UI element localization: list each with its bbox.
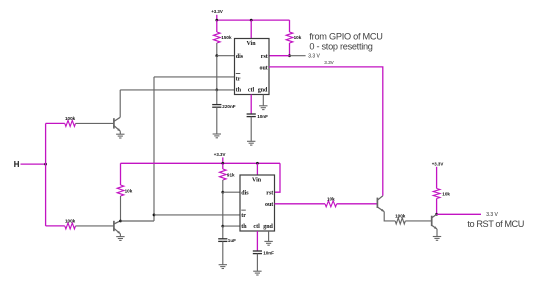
resistor R9 10k (collector Q4) [433,189,440,199]
svg-text:Vin: Vin [246,41,256,47]
ground Q2 emitter [116,237,124,241]
svg-text:out: out [259,65,267,71]
svg-text:+3.3V: +3.3V [211,9,223,14]
svg-text:th: th [236,87,242,93]
wire H lead [21,163,46,165]
node dis2 junction [221,191,224,194]
svg-text:3.3V: 3.3V [324,60,334,65]
svg-text:Vin: Vin [252,178,262,184]
svg-text:from GPIO of MCU: from GPIO of MCU [309,31,383,41]
resistor R8 100k [395,218,405,224]
wire top branch [46,122,65,124]
resistor R4 100k (bottom) [65,223,76,229]
node rail-Vin junction [250,19,253,22]
wire mid 3.3V rail [121,162,281,164]
wire dis2-th2 vertical [222,192,224,226]
ground below C2 [247,141,255,145]
transistor Q4 (right NPN) [432,214,437,229]
transistor Q3 (mid-right NPN) [377,196,384,212]
wire tr pin line U2 [154,214,240,216]
ground Q1 emitter [116,134,124,138]
svg-text:gnd: gnd [258,87,268,93]
wire out U2 [275,203,326,205]
transistor Q1 (top NPN) [114,117,120,131]
svg-text:0 - stop resetting: 0 - stop resetting [309,41,373,51]
node dis junction [215,54,218,57]
svg-text:3.3 V: 3.3 V [308,53,320,59]
svg-text:dis: dis [236,54,244,60]
ground below C3 [219,265,227,269]
op-amp U2 555 timer box [240,175,275,231]
resistor R2 10k (reset pull-up) [289,20,291,32]
svg-text:H: H [14,160,20,169]
svg-text:to RST of MCU: to RST of MCU [467,219,524,229]
svg-text:tr: tr [236,77,241,83]
wire H vertical bus [45,123,47,225]
svg-text:ctl: ctl [253,224,260,230]
svg-text:220nF: 220nF [222,104,235,109]
wire rst U2 from rail [275,163,281,192]
wire Vin drop to U1 [250,20,252,38]
node rail-Vin2 junction [256,162,259,165]
wire bottom branch [46,225,65,227]
transistor Q2 (bottom-left NPN) [114,221,121,234]
wire R3 to Q1 base [76,122,114,124]
svg-text:91k: 91k [227,173,235,178]
ground below C4 [253,271,261,275]
wire R8 to Q4 base [405,220,431,222]
wire th pin line U1 [120,89,234,91]
wire Q1 emitter [119,131,121,134]
svg-text:100k: 100k [65,219,76,224]
svg-text:100k: 100k [395,214,406,219]
ground below C1 [213,134,221,138]
svg-text:tr: tr [241,213,246,219]
svg-text:dis: dis [241,191,249,197]
wire out U1 (3.3V net to Q2) [269,67,383,196]
wire rst pin U1 [269,55,290,57]
svg-text:+3.3V: +3.3V [214,152,226,157]
resistor R6 91k [222,163,224,169]
resistor R3 100k (top) [65,120,76,126]
capacitor C3 1uF [222,226,224,239]
svg-text:100k: 100k [65,116,76,121]
svg-text:+3.3V: +3.3V [432,161,444,166]
svg-text:10k: 10k [327,197,335,202]
wire tr1-tr2 vertical bus [153,77,155,221]
wire th pin U2 [223,225,240,227]
wire collector to tr bus [121,220,155,222]
svg-text:150k: 150k [221,35,232,40]
wire Vin drop to U2 [256,163,258,175]
node mid rail junction [221,162,224,165]
node Q2 collector junction [119,220,122,223]
node th2 junction [221,225,224,228]
svg-text:3.3 V: 3.3 V [486,212,498,218]
svg-text:10k: 10k [442,191,450,196]
wire Q2 emitter [119,234,121,237]
node H junction [44,163,47,166]
wire top 3.3V rail [217,19,290,21]
ground Q4 emitter [433,237,441,241]
resistor R5 10k (pull-up mid) [120,163,122,185]
svg-text:ctl: ctl [248,87,255,93]
node th junction [215,89,218,92]
node rst junction [288,54,291,57]
svg-text:1uF: 1uF [228,238,236,243]
node rail-150k junction [215,19,218,22]
wire output to RST [437,213,481,215]
capacitor C4 10nF (ctl U2) [256,231,258,251]
svg-text:rst: rst [261,54,268,60]
svg-text:out: out [265,202,273,208]
capacitor C1 220nF [216,90,218,105]
wire R7 to Q3 base [337,203,378,205]
wire Q3 emitter down [384,212,395,221]
capacitor C2 10nF (ctl U1) [250,95,252,115]
wire Q1 collector to th [119,90,121,117]
svg-text:rst: rst [266,191,273,197]
wire dis-th vertical [216,56,218,90]
wire 150k to dis [216,43,218,56]
svg-text:th: th [241,224,247,230]
resistor R1 150k [216,20,218,32]
node Q4 collector junction [435,213,438,216]
op-amp U1 555 timer box [235,39,270,95]
ground gnd pin U2 [268,231,270,241]
wire dis pin U1 [217,55,235,57]
svg-text:10k: 10k [125,189,133,194]
wire rst to 3.3V terminal [290,55,306,57]
node tr2 branch junction [153,214,156,217]
svg-text:10k: 10k [294,35,302,40]
wire tr pin line U1 [154,76,235,78]
wire R4 to Q2 base [76,225,114,227]
svg-text:10nF: 10nF [257,114,268,119]
ground gnd pin U1 [262,95,264,106]
wire Q4 emitter [436,229,438,237]
svg-text:gnd: gnd [263,224,273,230]
svg-text:10nF: 10nF [263,251,274,256]
wire dis pin U2 [223,191,240,193]
resistor R7 10k (base Q3) [325,201,337,207]
